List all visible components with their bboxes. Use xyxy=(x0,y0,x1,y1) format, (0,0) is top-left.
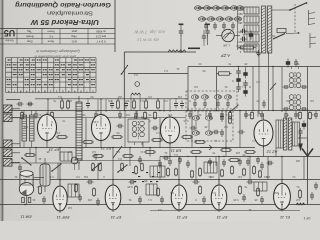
svg-text:0,1: 0,1 xyxy=(140,99,144,103)
svg-text:AZ 12: AZ 12 xyxy=(266,150,278,155)
svg-text:0,25: 0,25 xyxy=(93,120,99,124)
svg-text:Stromlaufplan: Stromlaufplan xyxy=(47,10,93,16)
svg-text:0,4: 0,4 xyxy=(118,157,122,161)
svg-text:0,4: 0,4 xyxy=(312,113,316,117)
svg-text:L 1W: L 1W xyxy=(223,44,230,48)
svg-text:0,4: 0,4 xyxy=(156,131,160,135)
svg-text:gepr.: gepr. xyxy=(71,29,77,33)
svg-text:EF 13: EF 13 xyxy=(216,215,227,220)
svg-text:6,3: 6,3 xyxy=(264,175,268,179)
svg-text:0,5: 0,5 xyxy=(76,175,80,179)
svg-text:6,3: 6,3 xyxy=(20,113,24,117)
svg-text:0,5: 0,5 xyxy=(260,113,264,117)
svg-text:2M: 2M xyxy=(68,150,72,154)
svg-text:50: 50 xyxy=(90,95,93,99)
svg-text:Tag: Tag xyxy=(27,29,32,33)
svg-text:A ZF: A ZF xyxy=(221,53,232,58)
svg-text:50: 50 xyxy=(242,153,245,157)
svg-text:125: 125 xyxy=(238,30,243,34)
svg-text:EF 13: EF 13 xyxy=(100,146,111,151)
svg-text:100: 100 xyxy=(235,151,240,155)
svg-text:2M: 2M xyxy=(274,191,278,195)
svg-text:0,1: 0,1 xyxy=(50,175,54,179)
svg-text:Gerufon-Radio Quedlinburg: Gerufon-Radio Quedlinburg xyxy=(15,1,111,8)
svg-text:EBF 11: EBF 11 xyxy=(57,215,70,220)
svg-text:2M: 2M xyxy=(210,175,214,179)
svg-text:70: 70 xyxy=(148,113,151,117)
svg-text:0,5: 0,5 xyxy=(170,191,174,195)
svg-text:100: 100 xyxy=(23,125,28,129)
svg-text:1W: 1W xyxy=(178,95,182,99)
svg-text:Gerufon: Gerufon xyxy=(5,39,14,42)
svg-text:1M: 1M xyxy=(296,198,300,202)
svg-text:100: 100 xyxy=(27,102,32,106)
svg-text:2M: 2M xyxy=(224,125,228,129)
svg-text:6,3: 6,3 xyxy=(116,150,120,154)
svg-text:0,25: 0,25 xyxy=(127,185,133,189)
svg-text:1W: 1W xyxy=(84,175,88,179)
svg-text:6,3: 6,3 xyxy=(158,208,162,212)
svg-text:zu 4568: zu 4568 xyxy=(96,29,106,33)
svg-text:0,25: 0,25 xyxy=(233,198,239,202)
svg-text:100: 100 xyxy=(67,99,72,103)
svg-text:1M: 1M xyxy=(238,175,242,179)
svg-text:1M: 1M xyxy=(92,150,96,154)
svg-text:0,5: 0,5 xyxy=(26,175,30,179)
svg-text:0,5: 0,5 xyxy=(164,99,168,103)
svg-text:0,1: 0,1 xyxy=(164,69,168,73)
svg-text:gedruckte Spannungstabelle W: gedruckte Spannungstabelle W xyxy=(33,55,76,59)
svg-text:EB 11: EB 11 xyxy=(171,149,182,154)
svg-text:100: 100 xyxy=(87,198,92,202)
svg-text:EM 11: EM 11 xyxy=(20,215,31,220)
svg-text:U5: U5 xyxy=(4,28,15,38)
svg-text:1M: 1M xyxy=(310,99,314,103)
svg-text:220: 220 xyxy=(238,12,243,16)
svg-text:EF 13: EF 13 xyxy=(176,215,187,220)
svg-text:1W: 1W xyxy=(108,99,112,103)
svg-text:25: 25 xyxy=(244,62,247,66)
svg-text:0,1: 0,1 xyxy=(242,85,246,89)
svg-text:Quedlinburger Gerätewerk W: Quedlinburger Gerätewerk W xyxy=(35,49,80,53)
svg-text:3n: 3n xyxy=(208,113,211,117)
svg-text:6,3: 6,3 xyxy=(296,113,300,117)
svg-text:EF 13: EF 13 xyxy=(110,215,121,220)
svg-text:150: 150 xyxy=(238,21,243,25)
svg-text:Name: Name xyxy=(47,29,55,33)
svg-text:0,1: 0,1 xyxy=(148,198,152,202)
svg-text:0,25: 0,25 xyxy=(183,119,189,123)
svg-text:2M: 2M xyxy=(286,99,290,103)
svg-text:50: 50 xyxy=(202,69,205,73)
svg-text:70: 70 xyxy=(244,185,247,189)
svg-text:1W: 1W xyxy=(56,131,60,135)
svg-text:0,5: 0,5 xyxy=(148,95,152,99)
svg-text:0,1: 0,1 xyxy=(174,153,178,157)
svg-text:UY 1: UY 1 xyxy=(303,216,310,220)
svg-text:0,4: 0,4 xyxy=(134,73,138,77)
svg-text:4.5.: 4.5. xyxy=(49,34,54,38)
svg-text:Norm: Norm xyxy=(47,40,54,44)
svg-text:där 30 W 12: där 30 W 12 xyxy=(136,38,159,43)
svg-text:0,1: 0,1 xyxy=(226,113,230,117)
svg-text:6,3: 6,3 xyxy=(252,139,256,143)
svg-text:0,4: 0,4 xyxy=(212,191,216,195)
svg-text:Hbg: Hbg xyxy=(71,34,76,38)
svg-text:W.O.: W.O. xyxy=(71,40,77,44)
svg-text:Aus. Apr. 7 W W: Aus. Apr. 7 W W xyxy=(134,30,167,35)
svg-text:25: 25 xyxy=(144,179,147,183)
svg-text:Ultra-Rekord 55 W: Ultra-Rekord 55 W xyxy=(30,18,99,27)
svg-text:Bearb.: Bearb. xyxy=(25,34,33,38)
svg-text:1W: 1W xyxy=(194,85,198,89)
svg-text:110: 110 xyxy=(238,40,243,44)
svg-text:0,5: 0,5 xyxy=(256,80,260,84)
svg-text:ges.12.8: ges.12.8 xyxy=(95,34,106,38)
svg-text:K D 4 Y: K D 4 Y xyxy=(96,40,105,44)
svg-text:EL 11: EL 11 xyxy=(280,215,290,220)
svg-text:Gepr.: Gepr. xyxy=(26,40,33,44)
svg-text:0,1: 0,1 xyxy=(58,95,62,99)
svg-text:100: 100 xyxy=(125,113,130,117)
svg-text:1W: 1W xyxy=(168,113,172,117)
svg-text:3n: 3n xyxy=(296,185,299,189)
